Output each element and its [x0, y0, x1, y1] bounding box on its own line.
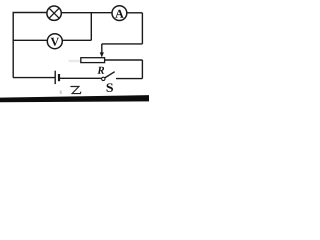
wire: voltmeter right to junction — [62, 39, 91, 41]
ammeter U1 — [112, 6, 127, 21]
wire: voltmeter left — [13, 39, 48, 41]
figure label 乙 (partial) — [70, 87, 81, 94]
wire: horizontal to slider — [102, 43, 143, 45]
voltmeter U2 — [47, 34, 62, 49]
bottom black band — [0, 95, 149, 102]
switch S pivot — [102, 77, 105, 80]
rheostat R body — [81, 58, 105, 63]
wire: rheostat right terminal — [105, 59, 143, 61]
wire: top left (battery+ to lamp) — [13, 12, 48, 14]
wire: left vertical — [12, 13, 14, 78]
lamp L (circle with X) — [47, 6, 61, 20]
wire: right vertical lower — [141, 60, 143, 79]
stray mark — [60, 91, 62, 94]
wire: switch to battery — [60, 77, 102, 79]
wire: junction vertical (parallel tap) — [90, 13, 92, 41]
wire: bottom right to switch — [116, 78, 142, 80]
switch S lever — [105, 72, 115, 78]
label S — [107, 83, 113, 91]
battery BT1 long thin plate — [54, 71, 56, 84]
label R — [97, 67, 104, 74]
wire: right vertical upper — [141, 13, 143, 44]
wire: ammeter to top-right corner — [127, 12, 143, 14]
rheostat R faint left body — [69, 60, 82, 62]
wire: battery to bottom-left corner — [13, 77, 55, 79]
battery BT1 short thick plate — [58, 74, 60, 81]
wire: lamp to ammeter — [61, 12, 112, 14]
slider arrowhead — [100, 52, 104, 57]
wire: slider drop — [101, 44, 103, 53]
